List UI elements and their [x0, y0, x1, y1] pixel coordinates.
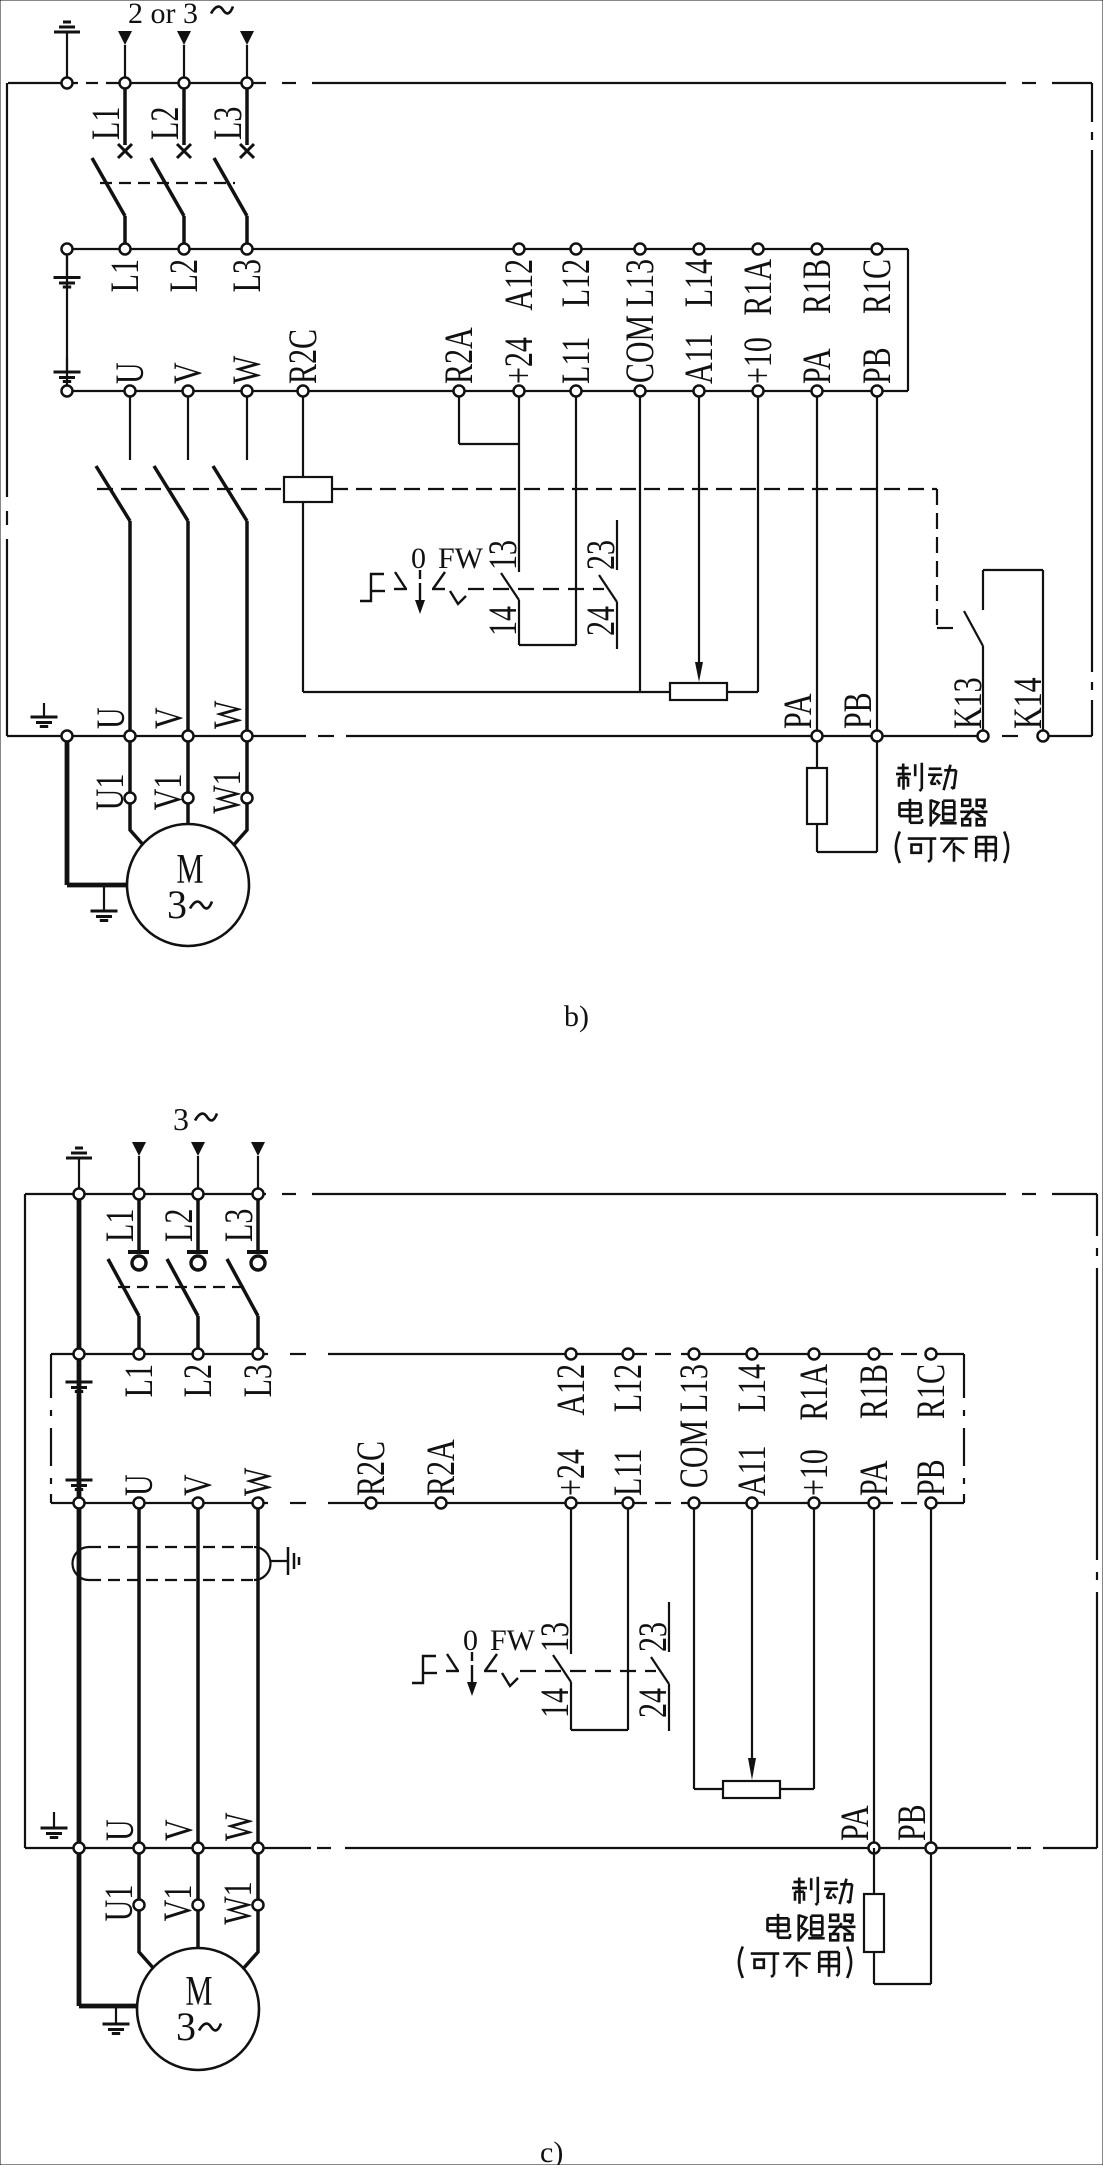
svg-text:R2A: R2A — [419, 1439, 463, 1496]
svg-text:L3: L3 — [236, 1364, 280, 1397]
svg-text:R2C: R2C — [281, 329, 325, 384]
svg-text:W1: W1 — [205, 770, 249, 813]
svg-text:PB: PB — [855, 347, 899, 384]
svg-text:23: 23 — [579, 540, 623, 570]
svg-text:U: U — [108, 362, 152, 384]
svg-text:FW: FW — [438, 542, 484, 575]
svg-text:2 or 3: 2 or 3 — [128, 0, 198, 30]
svg-text:L14: L14 — [730, 1364, 774, 1413]
svg-text:U: U — [117, 1474, 161, 1496]
svg-text:R1C: R1C — [855, 259, 899, 314]
svg-text:+10: +10 — [792, 1449, 836, 1496]
svg-text:PA: PA — [776, 693, 820, 729]
svg-text:U: U — [98, 1819, 142, 1841]
svg-text:W: W — [225, 355, 269, 384]
svg-text:V: V — [176, 1474, 220, 1496]
svg-text:L12: L12 — [606, 1364, 650, 1412]
svg-text:R2A: R2A — [437, 327, 481, 384]
svg-text:V1: V1 — [146, 774, 190, 811]
svg-text:L2: L2 — [143, 107, 187, 140]
svg-text:L11: L11 — [606, 1449, 650, 1496]
svg-text:A11: A11 — [677, 333, 721, 384]
svg-text:L2: L2 — [157, 1209, 201, 1242]
svg-text:13: 13 — [533, 1622, 577, 1652]
svg-text:U: U — [89, 707, 133, 729]
svg-text:V: V — [147, 707, 191, 729]
svg-text:K13: K13 — [946, 677, 990, 729]
svg-text:+10: +10 — [736, 337, 780, 384]
svg-text:L1: L1 — [98, 1209, 142, 1242]
svg-text:24: 24 — [579, 606, 623, 636]
svg-text:PB: PB — [890, 1804, 934, 1841]
svg-text:R1C: R1C — [909, 1364, 953, 1419]
svg-text:L1: L1 — [117, 1364, 161, 1397]
svg-text:R1B: R1B — [795, 259, 839, 314]
svg-text:A11: A11 — [730, 1445, 774, 1496]
svg-text:V: V — [157, 1819, 201, 1841]
svg-text:R1A: R1A — [792, 1364, 836, 1421]
svg-text:+24: +24 — [549, 1449, 593, 1496]
svg-text:3: 3 — [167, 882, 187, 927]
svg-text:0: 0 — [411, 542, 426, 575]
svg-text:23: 23 — [631, 1622, 675, 1652]
svg-text:L3: L3 — [206, 107, 250, 140]
svg-text:24: 24 — [631, 1688, 675, 1718]
svg-text:W: W — [206, 700, 250, 729]
svg-text:+24: +24 — [497, 337, 541, 384]
svg-text:14: 14 — [481, 606, 525, 636]
svg-text:L1: L1 — [84, 107, 128, 140]
svg-text:FW: FW — [490, 1624, 536, 1657]
svg-text:COM L13: COM L13 — [618, 259, 662, 383]
svg-text:0: 0 — [463, 1624, 478, 1657]
svg-text:L2: L2 — [176, 1364, 220, 1397]
svg-text:PA: PA — [795, 348, 839, 384]
svg-text:W: W — [217, 1812, 261, 1841]
svg-text:R1B: R1B — [852, 1364, 896, 1419]
svg-text:L3: L3 — [225, 259, 269, 292]
svg-text:3: 3 — [173, 1101, 189, 1137]
svg-text:3: 3 — [176, 2004, 196, 2049]
svg-text:A12: A12 — [497, 259, 541, 311]
svg-text:14: 14 — [533, 1688, 577, 1718]
svg-text:PB: PB — [909, 1459, 953, 1496]
svg-text:13: 13 — [481, 540, 525, 570]
svg-text:V: V — [166, 362, 210, 384]
svg-text:b): b) — [564, 1000, 589, 1033]
svg-text:PA: PA — [833, 1805, 877, 1841]
svg-text:L1: L1 — [103, 259, 147, 292]
svg-text:R1A: R1A — [736, 259, 780, 316]
svg-text:L2: L2 — [162, 259, 206, 292]
svg-text:R2C: R2C — [349, 1441, 393, 1496]
svg-text:c): c) — [540, 2136, 563, 2165]
svg-text:PB: PB — [836, 692, 880, 729]
svg-text:W: W — [236, 1467, 280, 1496]
svg-text:K14: K14 — [1006, 677, 1050, 729]
svg-text:U1: U1 — [88, 774, 132, 811]
svg-text:L11: L11 — [554, 337, 598, 384]
svg-text:L14: L14 — [677, 259, 721, 308]
svg-text:L3: L3 — [217, 1209, 261, 1242]
svg-text:A12: A12 — [549, 1364, 593, 1416]
svg-text:PA: PA — [852, 1460, 896, 1496]
svg-text:COM L13: COM L13 — [672, 1364, 716, 1488]
svg-text:L12: L12 — [554, 259, 598, 307]
